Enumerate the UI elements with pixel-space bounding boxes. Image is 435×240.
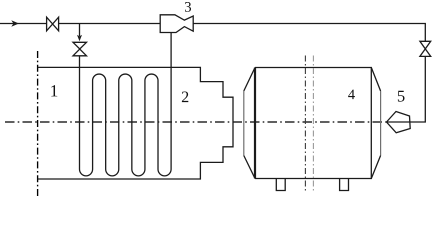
- vessel 4 left tube sheet (thick): [254, 68, 256, 179]
- pipe: inlet line: [0, 23, 47, 25]
- label 3: [185, 2, 191, 12]
- vessel 4 right end cap edge: [380, 91, 382, 156]
- valve V1 (horizontal globe valve): [47, 17, 59, 31]
- vessel 4 right end cap slants: [371, 68, 380, 179]
- vessel 4 left end cap edge: [243, 91, 245, 156]
- valve V3 (vertical): [420, 41, 431, 56]
- pipe: ejector outlet to right corner down to valve V3: [193, 24, 425, 42]
- coil (evaporator serpentine) with inlet from V2 and outlet to ejector: [80, 33, 172, 176]
- vessel 4 internal dashed line A: [304, 56, 306, 194]
- flow arrow in: [11, 20, 19, 27]
- pipe: branch down to valve V2: [79, 24, 81, 37]
- tank 1 / machine 2 outline (stepped box): [38, 67, 233, 179]
- label 4: [348, 90, 355, 99]
- vessel 4 foot left: [276, 179, 285, 191]
- centerline horizontal: [5, 121, 387, 123]
- centerline vertical (left edge of tank 1): [37, 51, 39, 196]
- label 1: [51, 85, 57, 96]
- label 5: [398, 91, 405, 102]
- arrow down: [77, 35, 82, 41]
- device 5 (pentagon nozzle): [387, 112, 411, 133]
- vessel 4 shell: [255, 68, 371, 179]
- pipe: valve V1 to ejector: [59, 23, 161, 25]
- vessel 4 internal dashed line B: [312, 56, 314, 194]
- pipe: valve V3 down and left to device 5: [387, 56, 426, 122]
- valve V2 (vertical): [73, 42, 87, 56]
- ejector U3 body: [160, 15, 193, 33]
- vessel 4 left end cap slants: [244, 68, 255, 179]
- vessel 4 foot right: [340, 179, 349, 191]
- label 2: [182, 92, 188, 103]
